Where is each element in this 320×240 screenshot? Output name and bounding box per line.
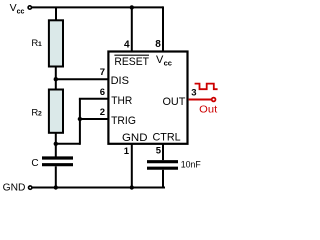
svg-text:GND: GND xyxy=(122,132,148,144)
svg-text:GND: GND xyxy=(3,182,26,194)
svg-text:CTRL: CTRL xyxy=(153,132,181,144)
svg-text:7: 7 xyxy=(100,67,105,78)
terminal GND xyxy=(29,186,32,189)
wire OUT pin 3 (red) xyxy=(189,99,212,101)
terminal Vcc xyxy=(28,6,31,9)
wire R2/C tap to THR-TRIG branch xyxy=(56,143,80,145)
wire R2 bottom to capacitor C xyxy=(55,133,57,158)
wire THR (pin 6) xyxy=(79,98,109,100)
svg-text:V: V xyxy=(10,2,17,14)
svg-text:1: 1 xyxy=(38,41,42,48)
svg-text:3: 3 xyxy=(191,87,196,98)
svg-text:10nF: 10nF xyxy=(181,159,201,169)
node junction C/ground rail xyxy=(54,185,58,189)
svg-text:8: 8 xyxy=(155,39,161,50)
node junction R2/C tap xyxy=(54,142,58,146)
svg-text:OUT: OUT xyxy=(163,96,186,108)
waveform square wave symbol xyxy=(195,84,218,90)
wire C bottom lead xyxy=(55,166,57,187)
svg-text:C: C xyxy=(31,158,38,169)
wire ground rail xyxy=(32,187,165,189)
svg-text:TRIG: TRIG xyxy=(111,115,136,127)
svg-text:cc: cc xyxy=(17,8,25,15)
wire pin8 drop xyxy=(162,6,164,51)
op IC U1 555 body xyxy=(108,52,187,144)
wire CTRL pin 5 to 10nF xyxy=(162,144,164,160)
svg-text:DIS: DIS xyxy=(111,75,129,87)
svg-text:4: 4 xyxy=(124,40,130,51)
wire THR-TRIG vertical branch xyxy=(79,99,81,145)
svg-text:6: 6 xyxy=(100,87,105,98)
svg-text:cc: cc xyxy=(164,59,172,68)
svg-text:2: 2 xyxy=(100,107,105,118)
wire Vcc top rail xyxy=(32,6,163,8)
node junction R1/R2/DIS xyxy=(54,77,58,81)
svg-text:Out: Out xyxy=(199,104,217,115)
wire DIS (pin 7) xyxy=(56,78,109,80)
wire pin4 drop xyxy=(131,7,133,51)
wire GND pin 1 xyxy=(131,144,133,188)
svg-text:5: 5 xyxy=(156,146,162,157)
label RESET overline xyxy=(114,54,149,56)
wire R1-R2 link xyxy=(55,67,57,90)
capacitor C top plate xyxy=(42,156,73,159)
svg-text:RESET: RESET xyxy=(114,56,149,68)
capacitor 10nF top plate xyxy=(147,160,178,163)
terminal Out (red) xyxy=(212,98,216,102)
wire 10nF bottom lead xyxy=(162,170,164,188)
capacitor 10nF bottom plate xyxy=(147,167,178,170)
resistor R1 xyxy=(49,20,63,66)
node junction top (pin4 rail) xyxy=(130,5,134,9)
svg-text:2: 2 xyxy=(38,111,42,118)
svg-text:1: 1 xyxy=(124,146,130,157)
resistor R2 xyxy=(49,90,63,133)
capacitor C bottom plate xyxy=(42,163,73,166)
svg-text:THR: THR xyxy=(111,95,132,107)
wire TRIG (pin 2) xyxy=(80,118,109,120)
node junction THR/TRIG xyxy=(78,117,82,121)
node junction pin1/ground rail xyxy=(130,185,134,189)
wire R1 top lead xyxy=(55,7,57,20)
